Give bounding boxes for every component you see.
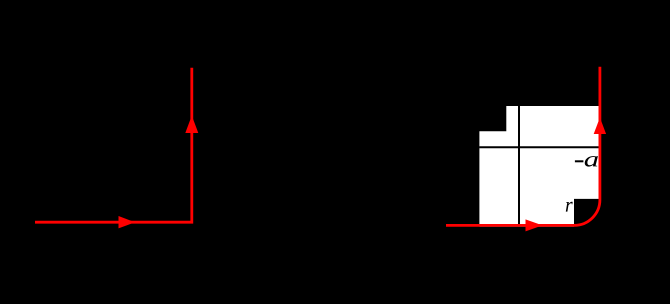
right contour: horizontal, quarter-arc corner of radius r, vertical — [446, 67, 600, 226]
right contour mid-arrow (rightward) — [526, 219, 543, 231]
label -a : letter a — [585, 156, 598, 167]
left contour mid-arrow (rightward) — [119, 216, 136, 228]
label r — [566, 202, 573, 212]
right contour mid-arrow (upward) — [594, 118, 606, 135]
left contour mid-arrow (upward) — [185, 116, 198, 133]
black horizontal axis line — [479, 146, 598, 148]
left contour: horizontal then vertical path with sharp corner — [35, 68, 192, 223]
white label-background region (stepped, with square notch at arc) — [479, 106, 598, 227]
black vertical axis line — [518, 106, 520, 226]
label -a : minus sign — [575, 160, 584, 162]
